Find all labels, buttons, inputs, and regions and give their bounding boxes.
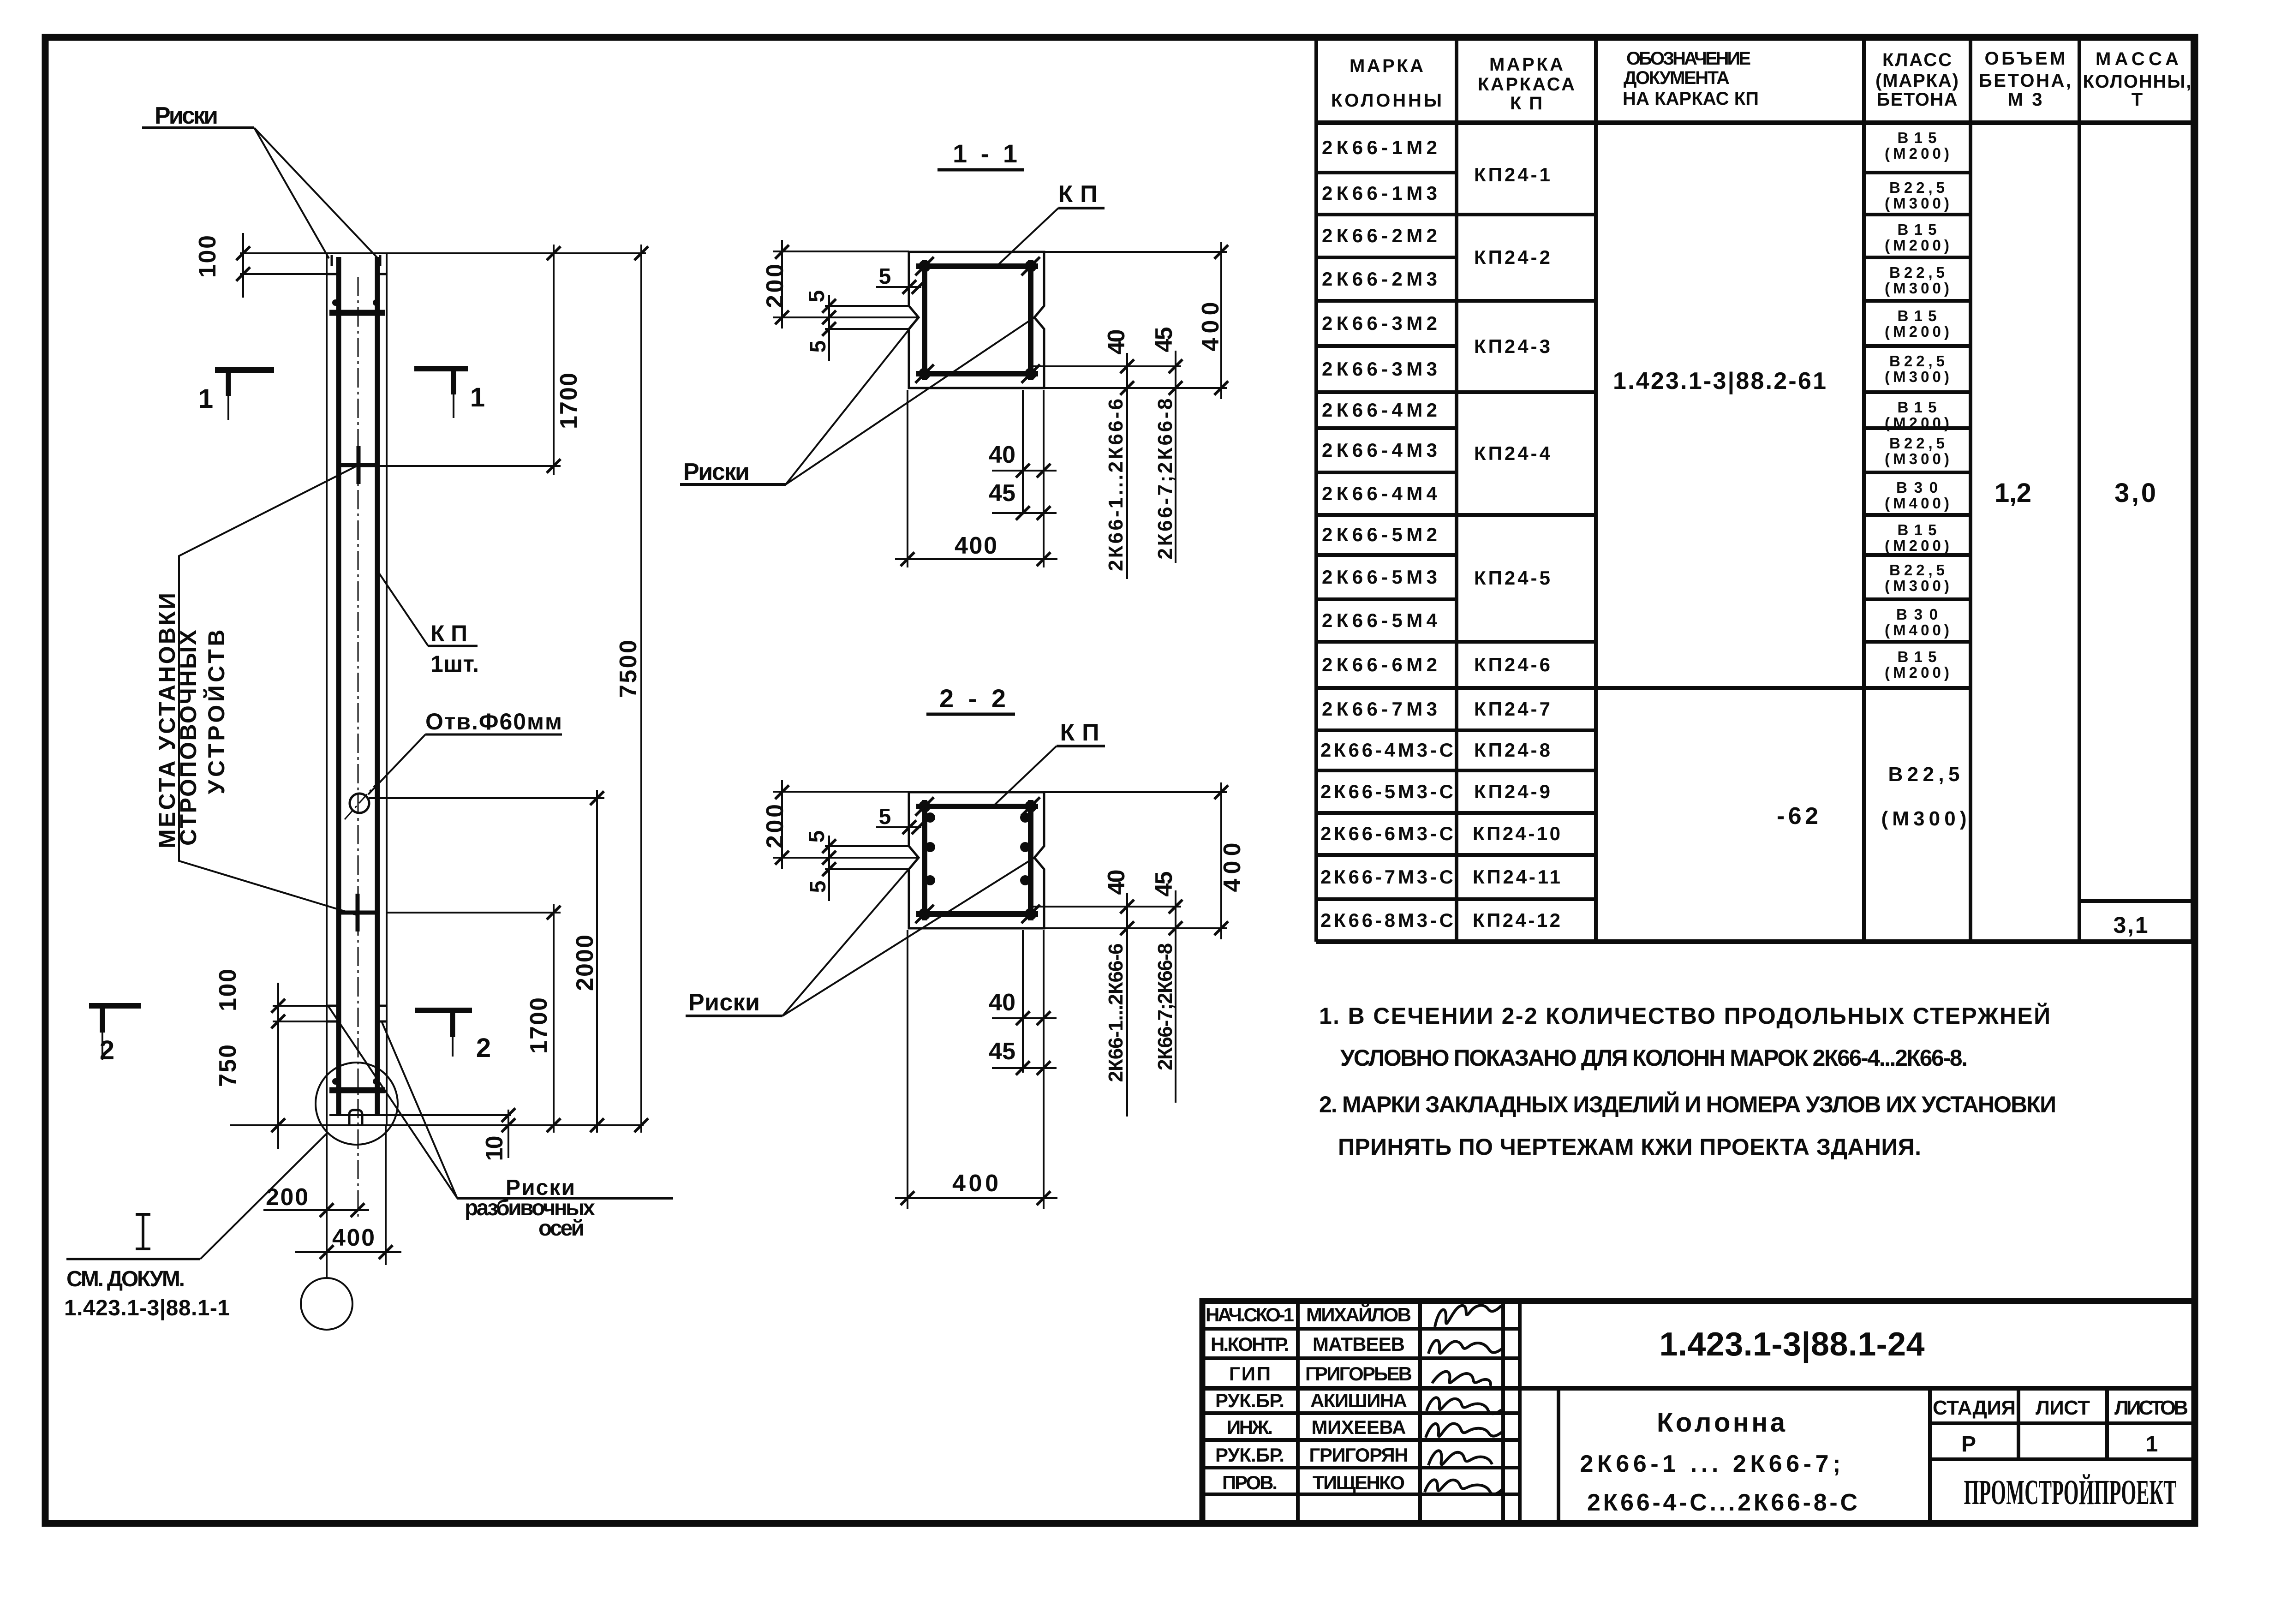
- section mark 1 right: [414, 366, 468, 371]
- svg-text:2 - 2: 2 - 2: [939, 684, 1006, 713]
- svg-text:ДОКУМЕНТА: ДОКУМЕНТА: [1624, 68, 1730, 88]
- dim 2000: [596, 790, 598, 1133]
- svg-text:1.423.1-3|88.2-61: 1.423.1-3|88.2-61: [1613, 368, 1826, 394]
- svg-text:В15: В15: [1898, 521, 1937, 538]
- svg-text:2К66-7М3-С: 2К66-7М3-С: [1320, 866, 1453, 888]
- dim 10 bottom: [508, 1110, 509, 1158]
- svg-text:В30: В30: [1896, 606, 1938, 623]
- svg-text:1 - 1: 1 - 1: [953, 139, 1017, 168]
- svg-text:5: 5: [806, 881, 830, 893]
- svg-text:1.423.1-3|88.1-1: 1.423.1-3|88.1-1: [64, 1296, 230, 1320]
- svg-text:(М200): (М200): [1885, 145, 1949, 162]
- svg-text:Риски: Риски: [683, 459, 750, 485]
- bottom П stamp mark: [349, 1110, 362, 1126]
- lower strop cross: [340, 894, 379, 931]
- svg-text:100: 100: [194, 235, 221, 278]
- top lifting plate: [329, 310, 385, 316]
- svg-text:Риски: Риски: [155, 102, 218, 129]
- table column 1: column marks: [1320, 137, 1453, 931]
- bottom dims section 2-2: [908, 930, 1044, 1209]
- section 1-1 concrete outline with risk notches: [909, 252, 1044, 388]
- risk marks top: [326, 273, 387, 275]
- svg-text:5: 5: [806, 340, 830, 353]
- svg-text:(МАРКА): (МАРКА): [1875, 71, 1959, 91]
- section mark 2 right: [415, 1008, 472, 1013]
- svg-text:КЛАСС: КЛАСС: [1882, 50, 1952, 70]
- svg-text:К о л о н н а: К о л о н н а: [1657, 1408, 1785, 1438]
- svg-text:ОБЪЕМ: ОБЪЕМ: [1985, 48, 2066, 69]
- svg-text:45: 45: [989, 480, 1015, 507]
- svg-text:ГРИГОРЯН: ГРИГОРЯН: [1309, 1444, 1409, 1466]
- dim 100 / 750 bottom-left: [273, 1006, 326, 1021]
- svg-text:МАРКА: МАРКА: [1489, 54, 1563, 75]
- svg-text:400: 400: [1197, 302, 1224, 352]
- dims 5 left section 2-2: [825, 846, 910, 869]
- svg-text:ЛИСТОВ: ЛИСТОВ: [2114, 1397, 2188, 1419]
- svg-text:В22,5: В22,5: [1889, 179, 1945, 196]
- right dims section 1-1: [1031, 252, 1227, 388]
- svg-text:40: 40: [989, 442, 1015, 468]
- svg-text:5: 5: [879, 264, 891, 289]
- svg-text:СТАДИЯ: СТАДИЯ: [1933, 1397, 2016, 1419]
- svg-text:3,1: 3,1: [2114, 912, 2148, 938]
- svg-text:МИХЕЕВА: МИХЕЕВА: [1312, 1416, 1406, 1438]
- signature Григорян: [1428, 1451, 1492, 1465]
- title block grid: [1202, 1301, 2194, 1523]
- svg-text:В15: В15: [1898, 307, 1937, 324]
- dim 100 top-left: [240, 273, 326, 275]
- svg-text:НАЧ.СКО-1: НАЧ.СКО-1: [1206, 1304, 1294, 1325]
- detail circle at column foot: [316, 1063, 398, 1145]
- svg-text:ГИП: ГИП: [1229, 1363, 1271, 1385]
- right edge extension below column: [385, 1125, 387, 1265]
- svg-text:(М300): (М300): [1885, 195, 1949, 212]
- svg-text:1,2: 1,2: [1994, 478, 2031, 508]
- svg-text:(М400): (М400): [1885, 621, 1949, 639]
- svg-text:НА КАРКАС КП: НА КАРКАС КП: [1623, 89, 1759, 109]
- svg-text:МАССА: МАССА: [2096, 49, 2179, 69]
- svg-text:В15: В15: [1898, 399, 1937, 416]
- dim 200 section 2-2: [773, 792, 918, 858]
- svg-text:МИХАЙЛОВ: МИХАЙЛОВ: [1306, 1303, 1411, 1325]
- svg-text:(М300): (М300): [1885, 368, 1949, 385]
- svg-text:1: 1: [198, 384, 213, 414]
- svg-text:В22,5: В22,5: [1888, 763, 1960, 786]
- title block roles: [1206, 1304, 1294, 1493]
- svg-text:400: 400: [952, 1170, 998, 1197]
- svg-text:1: 1: [2146, 1432, 2158, 1457]
- svg-text:В30: В30: [1896, 479, 1938, 496]
- label СМ ДОКУМ: [136, 1214, 150, 1249]
- axis bubble circle: [301, 1278, 352, 1330]
- svg-text:УСТРОЙСТВ: УСТРОЙСТВ: [203, 630, 229, 794]
- svg-text:МАТВЕЕВ: МАТВЕЕВ: [1313, 1333, 1405, 1355]
- svg-text:ПРОВ.: ПРОВ.: [1222, 1472, 1278, 1493]
- svg-text:(М400): (М400): [1885, 495, 1949, 512]
- right dims section 2-2: [1031, 792, 1227, 928]
- svg-text:2: 2: [100, 1035, 114, 1065]
- dim 1700 upper right: [553, 245, 555, 475]
- svg-text:5: 5: [805, 290, 829, 303]
- bottom lifting plate: [329, 1087, 385, 1093]
- svg-text:45: 45: [989, 1038, 1015, 1065]
- dim 7500: [640, 245, 642, 1133]
- svg-text:ПРИНЯТЬ ПО ЧЕРТЕЖАМ КЖИ ПРОЕКТ: ПРИНЯТЬ ПО ЧЕРТЕЖАМ КЖИ ПРОЕКТА ЗДАНИЯ.: [1338, 1134, 1921, 1160]
- svg-text:2К66-1...2К66-6: 2К66-1...2К66-6: [1105, 943, 1127, 1082]
- svg-text:1: 1: [470, 382, 485, 412]
- dim 400 bottom: [295, 1251, 401, 1253]
- svg-text:БЕТОНА: БЕТОНА: [1877, 90, 1958, 110]
- svg-text:В22,5: В22,5: [1889, 352, 1945, 370]
- section 2-2 concrete outline with risk notches: [909, 792, 1044, 928]
- svg-text:Н.КОНТР.: Н.КОНТР.: [1211, 1333, 1289, 1355]
- axis extension below column: [326, 1125, 328, 1278]
- svg-text:100: 100: [215, 969, 241, 1011]
- upper strop cross: [340, 446, 379, 484]
- svg-text:2К66-4М3-С: 2К66-4М3-С: [1320, 739, 1453, 761]
- svg-text:В15: В15: [1898, 648, 1937, 665]
- svg-text:2К66-7;2К66-8: 2К66-7;2К66-8: [1154, 943, 1176, 1070]
- svg-text:СМ. ДОКУМ.: СМ. ДОКУМ.: [66, 1267, 185, 1291]
- rebar line left: [336, 257, 341, 1114]
- svg-text:2. МАРКИ ЗАКЛАДНЫХ ИЗДЕЛИЙ И Н: 2. МАРКИ ЗАКЛАДНЫХ ИЗДЕЛИЙ И НОМЕРА УЗЛО…: [1319, 1091, 2056, 1117]
- bottom dims section 1-1: [908, 390, 1044, 567]
- table column 2: frame marks: [1473, 164, 1560, 931]
- svg-text:Отв.Ф60мм: Отв.Ф60мм: [425, 709, 562, 734]
- svg-text:400: 400: [332, 1224, 375, 1251]
- svg-text:РУК.БР.: РУК.БР.: [1215, 1390, 1284, 1411]
- svg-text:-62: -62: [1777, 803, 1818, 830]
- dim 200 section 1-1: [773, 251, 918, 317]
- svg-text:КОЛОННЫ: КОЛОННЫ: [1331, 90, 1442, 111]
- centerline: [358, 277, 359, 1220]
- svg-text:1. В СЕЧЕНИИ 2-2 КОЛИЧЕСТВО ПР: 1. В СЕЧЕНИИ 2-2 КОЛИЧЕСТВО ПРОДОЛЬНЫХ С…: [1319, 1003, 2050, 1029]
- svg-text:В22,5: В22,5: [1889, 561, 1945, 579]
- svg-text:(М200): (М200): [1885, 323, 1949, 340]
- svg-text:10: 10: [481, 1136, 508, 1161]
- svg-text:КП24-4: КП24-4: [1474, 442, 1551, 464]
- svg-text:РУК.БР.: РУК.БР.: [1215, 1444, 1284, 1466]
- svg-text:(М300): (М300): [1881, 807, 1967, 830]
- svg-text:40: 40: [1103, 870, 1130, 895]
- svg-text:400: 400: [1219, 843, 1246, 892]
- svg-text:ЛИСТ: ЛИСТ: [2036, 1397, 2090, 1419]
- title block names: [1305, 1303, 1412, 1493]
- signature Тищенко: [1425, 1480, 1502, 1494]
- svg-text:2: 2: [476, 1033, 491, 1063]
- section 1-1 rebar cage: [916, 260, 1038, 380]
- svg-text:В15: В15: [1898, 221, 1937, 238]
- dims 5 left section 1-1: [825, 306, 910, 329]
- column outline: [230, 253, 646, 1125]
- svg-text:АКИШИНА: АКИШИНА: [1310, 1390, 1407, 1411]
- svg-text:1шт.: 1шт.: [430, 651, 479, 677]
- svg-text:40: 40: [989, 989, 1015, 1016]
- svg-text:(М200): (М200): [1885, 664, 1949, 681]
- svg-text:200: 200: [762, 264, 788, 308]
- risk marks bottom: [326, 1006, 387, 1021]
- hole d60: [350, 794, 369, 813]
- svg-text:2К66-7;2К66-8: 2К66-7;2К66-8: [1154, 399, 1176, 560]
- signature Григорьев: [1432, 1372, 1491, 1386]
- svg-text:5: 5: [879, 805, 891, 829]
- signature Матвеев: [1428, 1340, 1504, 1354]
- svg-text:200: 200: [762, 804, 788, 848]
- rebar line right: [375, 257, 380, 1114]
- svg-text:40: 40: [1103, 329, 1130, 355]
- signature Акишина: [1427, 1397, 1501, 1414]
- svg-text:750: 750: [215, 1045, 241, 1087]
- svg-text:В15: В15: [1898, 129, 1937, 146]
- svg-text:(М200): (М200): [1885, 237, 1949, 254]
- svg-text:(М300): (М300): [1885, 280, 1949, 297]
- table column 4: concrete class cells: [1881, 129, 1967, 830]
- svg-text:2К66-6М3-С: 2К66-6М3-С: [1320, 823, 1453, 844]
- svg-text:В22,5: В22,5: [1889, 264, 1945, 281]
- svg-text:5: 5: [805, 830, 829, 843]
- svg-text:(М200): (М200): [1885, 537, 1949, 554]
- svg-text:ПРОМСТРОЙПРОЕКТ: ПРОМСТРОЙПРОЕКТ: [1964, 1473, 2177, 1512]
- svg-text:ОБОЗНАЧЕНИЕ: ОБОЗНАЧЕНИЕ: [1626, 48, 1751, 69]
- table header texts: [1331, 48, 2191, 113]
- svg-text:В22,5: В22,5: [1889, 435, 1945, 452]
- table grid: [1316, 37, 2192, 942]
- svg-text:45: 45: [1151, 872, 1177, 897]
- section 2-2 rebar cage: [916, 800, 1038, 920]
- svg-text:45: 45: [1151, 327, 1177, 352]
- svg-text:КОЛОННЫ,: КОЛОННЫ,: [2083, 72, 2191, 92]
- signature Михеева: [1426, 1424, 1503, 1438]
- svg-text:УСЛОВНО ПОКАЗАНО ДЛЯ КОЛОНН МА: УСЛОВНО ПОКАЗАНО ДЛЯ КОЛОНН МАРОК 2К66-4…: [1340, 1045, 1968, 1071]
- svg-text:1.423.1-3|88.1-24: 1.423.1-3|88.1-24: [1660, 1326, 1925, 1363]
- svg-text:ТИЩЕНКО: ТИЩЕНКО: [1313, 1472, 1405, 1493]
- svg-text:ИНЖ.: ИНЖ.: [1227, 1416, 1273, 1438]
- dim 200 bottom: [263, 1209, 369, 1211]
- svg-text:ГРИГОРЬЕВ: ГРИГОРЬЕВ: [1305, 1363, 1412, 1385]
- svg-text:2К66-5М3-С: 2К66-5М3-С: [1320, 781, 1453, 802]
- svg-text:Т: Т: [2132, 90, 2143, 110]
- svg-text:2К66-8М3-С: 2К66-8М3-С: [1320, 909, 1453, 931]
- section mark 1 left: [215, 367, 274, 373]
- svg-text:Р: Р: [1961, 1432, 1976, 1457]
- svg-text:400: 400: [955, 532, 997, 559]
- svg-text:3,0: 3,0: [2114, 478, 2156, 508]
- svg-text:(М200): (М200): [1885, 414, 1949, 431]
- dim 1700 lower right: [553, 904, 555, 1133]
- svg-text:осей: осей: [538, 1216, 585, 1241]
- svg-text:2К66-4-С...2К66-8-С: 2К66-4-С...2К66-8-С: [1587, 1489, 1857, 1516]
- svg-text:(М300): (М300): [1885, 577, 1949, 594]
- signature Михайлов: [1435, 1305, 1501, 1327]
- title block frame: [1202, 1301, 2194, 1523]
- svg-text:МАРКА: МАРКА: [1350, 56, 1423, 76]
- section mark 2 left: [89, 1003, 141, 1009]
- svg-text:Риски: Риски: [688, 989, 760, 1016]
- svg-text:(М300): (М300): [1885, 450, 1949, 467]
